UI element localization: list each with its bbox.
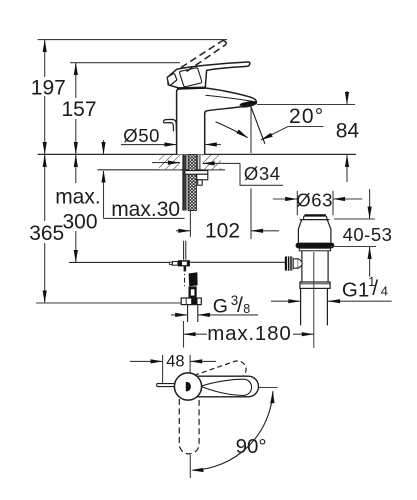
dimension max.180: [183, 321, 185, 348]
arrowheads 157/max300: [74, 63, 78, 263]
faucet centerline below shank: [189, 211, 191, 237]
lever end dark oval: [186, 382, 191, 392]
svg-text:Ø63: Ø63: [296, 190, 333, 211]
shank smooth edges: [185, 154, 187, 210]
20 degree label leader: [261, 127, 288, 141]
collar / union nut: [300, 282, 330, 288]
157 reference line: [70, 62, 180, 64]
extension line from spout outlet: [250, 108, 252, 154]
deck top line: [38, 153, 356, 155]
spout chamfer line: [206, 95, 253, 101]
dimension 102: [176, 230, 190, 232]
lever handle (solid): [168, 62, 250, 88]
dimension Ø63: [296, 191, 298, 215]
svg-text:G1: G1: [342, 279, 369, 302]
handle gap line (thick): [177, 86, 205, 89]
flange flare: [298, 220, 331, 243]
faucet body circle (top view): [174, 373, 201, 400]
tailpipe: [300, 288, 302, 325]
svg-text:Ø50: Ø50: [123, 125, 160, 146]
tee bottom stub: [184, 266, 187, 271]
svg-text:84: 84: [336, 120, 360, 143]
supply pipe width arrows / G3/8 label line: [171, 314, 187, 316]
pop-up rod knob behind faucet: [164, 119, 177, 131]
rod tee clamp: [178, 260, 190, 266]
aerator: [239, 100, 257, 107]
Ø34 label leader: [240, 163, 283, 185]
dashed handle swung (tilted): [179, 359, 249, 397]
tailpipe centerline: [313, 252, 315, 348]
svg-text:/: /: [237, 294, 243, 317]
svg-text:90°: 90°: [236, 435, 267, 458]
mounting bracket step: [197, 174, 208, 180]
svg-text:max.: max.: [55, 186, 101, 209]
centerline below tee (dash-dot): [184, 266, 186, 288]
svg-text:40-53: 40-53: [343, 224, 393, 245]
svg-text:max.30: max.30: [111, 198, 180, 221]
O-ring (black band): [296, 243, 335, 249]
20 degree spray line: [251, 106, 265, 144]
svg-text:365: 365: [29, 222, 64, 245]
mounting stud: [198, 180, 203, 185]
pop-up rod stub (top view): [157, 384, 176, 387]
faucet body and spout: [177, 88, 257, 155]
svg-text:Ø34: Ø34: [244, 163, 281, 184]
svg-text:102: 102: [205, 220, 240, 243]
dashed handle swung (down): [179, 399, 199, 454]
dimension 40-53: [334, 218, 375, 220]
flexible hose (black): [189, 272, 198, 286]
threaded shank below deck: pop-up rod dark bar: [183, 154, 186, 210]
dimension max.30: [104, 140, 185, 218]
84 top reference line: [257, 104, 355, 106]
svg-text:20°: 20°: [289, 105, 324, 128]
dimension 48: [162, 355, 164, 384]
dimension line 197/365: [44, 40, 46, 303]
svg-text:max.180: max.180: [207, 322, 291, 345]
waste body sides: [301, 251, 303, 282]
svg-text:G: G: [213, 296, 228, 318]
handle inner blade (top view): [201, 379, 251, 395]
svg-text:300: 300: [63, 211, 98, 234]
svg-text:/: /: [372, 277, 378, 300]
dimension 84: [346, 91, 348, 105]
threaded shank crosshatch: [188, 154, 196, 210]
lever inner contour: [180, 68, 202, 87]
20 degree arc arrow: [216, 122, 248, 138]
shank right smooth lines in hole: [197, 154, 199, 170]
dimension G1 1/4: [271, 300, 300, 302]
knob neck: [293, 259, 298, 268]
svg-text:157: 157: [62, 98, 97, 121]
svg-text:197: 197: [31, 76, 66, 99]
hose connector window: [189, 286, 197, 297]
dimension line 157/max300: [75, 63, 77, 263]
svg-text:8: 8: [243, 302, 250, 316]
handle capsule (top view): [193, 376, 259, 397]
horizontal pop-up rod: [69, 261, 169, 263]
deck bottom line: [98, 169, 226, 171]
step under O-ring: [299, 248, 330, 251]
flange top line: [300, 219, 330, 221]
side knob (ridged): [285, 256, 293, 270]
top reference line (raised lever height): [38, 39, 227, 41]
365 bottom reference line: [36, 302, 181, 304]
pop-up rod vertical below shank: [183, 241, 185, 260]
supply pipe: [187, 304, 189, 322]
svg-text:48: 48: [166, 353, 184, 371]
90° arc: [193, 391, 273, 470]
washer plate under deck: [185, 171, 208, 175]
svg-text:4: 4: [381, 284, 388, 299]
centerline below circle: [189, 455, 191, 478]
90° extension line from handle tip: [259, 387, 278, 389]
pop-up waste: dome cap: [304, 215, 327, 219]
lever raised (dashed): [181, 41, 226, 72]
deck hatching left of hole: [159, 155, 180, 169]
hole diameter arrows (Ø34 at deck): [152, 162, 180, 164]
arrowheads 197/365: [43, 40, 47, 303]
lever rear flag: [167, 74, 177, 86]
G3/8 hex nut: [181, 298, 201, 305]
deck hatching right of hole: [203, 155, 221, 169]
